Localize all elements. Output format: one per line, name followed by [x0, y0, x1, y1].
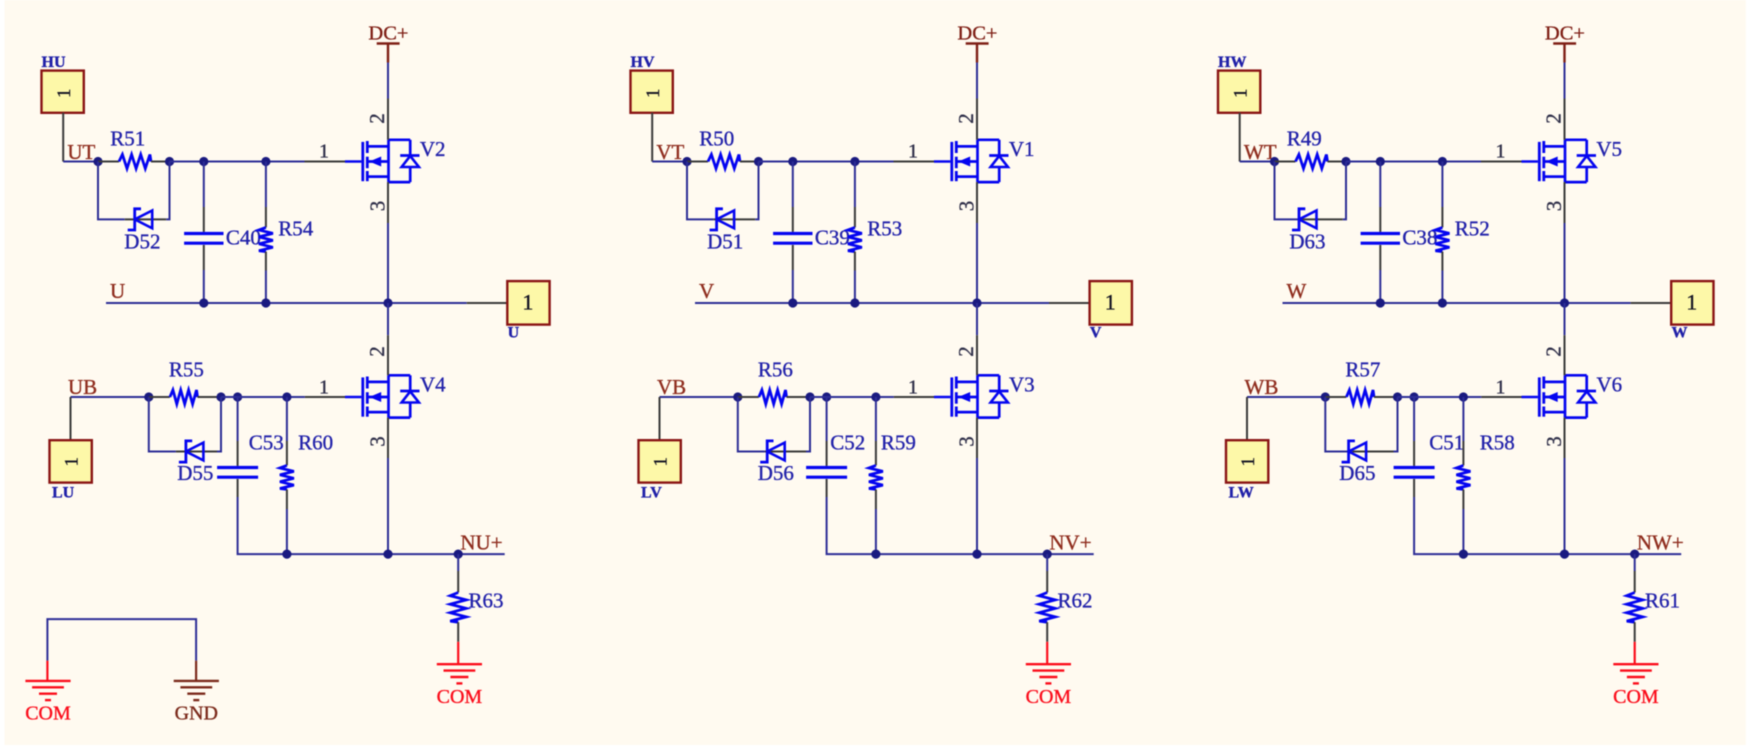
pin wire [875, 441, 877, 465]
wire gate bus [170, 161, 305, 163]
port 1 (U) [507, 281, 549, 341]
wire zener loop [1325, 397, 1352, 452]
resistor R59 [869, 431, 916, 490]
wire zener loop [687, 162, 714, 220]
wire res to net [265, 271, 267, 304]
svg-text:R63: R63 [469, 589, 504, 613]
junction [282, 392, 291, 401]
net NW+ wire [1463, 553, 1681, 555]
svg-text:C51: C51 [1429, 431, 1464, 455]
pin wire [854, 207, 856, 227]
wire cap column [237, 397, 239, 441]
wire source to NV+ [976, 458, 978, 554]
pin wire [687, 161, 708, 163]
pin 3 wire [976, 418, 978, 458]
pin wire [1413, 441, 1415, 466]
svg-text:V4: V4 [420, 373, 446, 397]
wire to DC+ [1564, 63, 1566, 99]
svg-text:3: 3 [954, 201, 978, 212]
resistor R56 [758, 358, 793, 405]
junction [216, 392, 225, 401]
junction [871, 392, 880, 401]
wire zener loop right [1343, 162, 1346, 220]
capacitor C51 [1394, 431, 1465, 478]
wire to DC+ [976, 63, 978, 99]
wire zener loop right [166, 162, 169, 220]
junction [199, 298, 208, 307]
junction [972, 298, 981, 307]
pin wire [203, 245, 205, 270]
capacitor C40 [184, 225, 261, 249]
pin 2 wire [387, 335, 389, 375]
svg-text:V: V [1090, 325, 1102, 342]
port LW [1226, 440, 1268, 501]
wire cap to net [238, 497, 287, 554]
wire res column [854, 162, 856, 208]
wire gate bus [221, 396, 305, 398]
svg-text:COM: COM [1613, 686, 1659, 708]
junction [1410, 392, 1419, 401]
capacitor C53 [217, 431, 284, 478]
svg-text:R60: R60 [298, 431, 333, 455]
pin wire [125, 218, 167, 220]
wire cap to net [203, 270, 205, 303]
pin 2 wire [976, 99, 978, 140]
pin wire [286, 441, 288, 465]
pin 3 wire [1564, 182, 1566, 223]
svg-text:D56: D56 [758, 461, 794, 485]
svg-text:NV+: NV+ [1049, 531, 1091, 555]
svg-text:D63: D63 [1289, 230, 1325, 254]
port 1 (W) [1671, 281, 1713, 341]
wire zener loop right [1394, 397, 1398, 452]
svg-text:R51: R51 [110, 126, 145, 150]
pin 1 wire [894, 396, 934, 398]
wire gate bus [810, 396, 894, 398]
capacitor C38 [1361, 225, 1438, 249]
wire res column [875, 397, 877, 441]
net U wire [106, 302, 467, 304]
wire VB [660, 396, 738, 398]
pin wire [1379, 245, 1381, 270]
svg-text:V6: V6 [1597, 373, 1623, 397]
wire to sense resistor [1046, 554, 1048, 571]
wire res to net [1462, 509, 1464, 554]
wire source to NW+ [1564, 458, 1566, 554]
junction [199, 157, 208, 166]
wire to node WT [1240, 161, 1275, 163]
svg-text:R54: R54 [278, 216, 314, 240]
svg-text:V: V [699, 279, 714, 303]
pin wire [457, 622, 459, 642]
pin wire [1441, 207, 1443, 227]
pin wire [1462, 489, 1464, 509]
svg-text:LW: LW [1229, 485, 1254, 502]
junction [144, 392, 153, 401]
svg-text:R58: R58 [1480, 431, 1515, 455]
wire to sense resistor [1634, 554, 1636, 571]
mosfet V1 [934, 137, 1035, 182]
wire source to NU+ [387, 458, 389, 554]
pin wire [1275, 161, 1296, 163]
pin wire [286, 489, 288, 509]
wire to sense resistor [457, 554, 459, 571]
zener diode D51 [707, 209, 743, 254]
wire cap column [203, 162, 205, 208]
net NV+ wire [876, 553, 1094, 555]
port stub wire [467, 302, 508, 304]
pin 2 wire [1564, 99, 1566, 140]
wire to node UT [63, 161, 98, 163]
power port DC+ [368, 23, 408, 63]
ground COM [1613, 642, 1659, 708]
wire to node VT [652, 161, 687, 163]
wire port stem [62, 113, 64, 162]
zener diode D65 [1339, 441, 1375, 485]
pin wire [98, 161, 119, 163]
wire zener loop right [755, 162, 758, 220]
pin 2 wire [387, 99, 389, 140]
pin wire [792, 207, 794, 232]
svg-text:3: 3 [1542, 436, 1566, 447]
wire res column [286, 397, 288, 441]
pin wire [738, 396, 759, 398]
resistor R60 [280, 431, 333, 490]
svg-text:2: 2 [365, 113, 389, 124]
svg-text:C39: C39 [815, 225, 850, 249]
wire res column [1462, 397, 1464, 441]
wire gate bus [1346, 161, 1481, 163]
wire res to net [854, 271, 856, 304]
power port DC+ [1545, 23, 1585, 63]
svg-text:1: 1 [1105, 290, 1116, 315]
ground COM [1026, 642, 1072, 708]
svg-text:R52: R52 [1455, 216, 1490, 240]
wire res column [1441, 162, 1443, 208]
svg-text:GND: GND [175, 703, 218, 725]
pin wire [1413, 479, 1415, 497]
svg-text:D65: D65 [1339, 461, 1375, 485]
wire zener loop [149, 397, 176, 452]
junction [850, 157, 859, 166]
junction [1459, 392, 1468, 401]
junction [282, 550, 291, 559]
svg-text:COM: COM [437, 686, 483, 708]
svg-text:DC+: DC+ [957, 23, 997, 45]
pin wire [765, 451, 806, 453]
resistor R61 [1627, 589, 1680, 623]
resistor R50 [699, 126, 740, 168]
svg-text:V3: V3 [1009, 373, 1035, 397]
pin 1 wire [305, 396, 345, 398]
svg-text:C53: C53 [249, 431, 284, 455]
svg-text:R55: R55 [169, 358, 204, 382]
svg-text:COM: COM [1026, 686, 1072, 708]
junction [788, 157, 797, 166]
junction [1341, 157, 1350, 166]
pin wire [875, 489, 877, 509]
resistor R51 [110, 126, 151, 168]
wire port stem [651, 113, 653, 162]
pin 2 wire [976, 335, 978, 375]
pin 3 wire [1564, 418, 1566, 458]
junction [165, 157, 174, 166]
wire gate bus [759, 161, 894, 163]
pin wire [457, 571, 459, 593]
ground COM [437, 642, 483, 708]
port LU [50, 440, 92, 501]
zener diode D52 [124, 209, 160, 254]
svg-text:LV: LV [641, 485, 662, 502]
svg-text:2: 2 [365, 346, 389, 357]
port LV [639, 440, 681, 501]
wire cap column [792, 162, 794, 208]
svg-text:C40: C40 [226, 225, 261, 249]
wire source to net U [387, 223, 389, 303]
port HW [1218, 54, 1260, 113]
pin wire [787, 396, 811, 398]
pin wire [1374, 396, 1398, 398]
pin wire [1325, 396, 1346, 398]
wire port stem [1239, 113, 1241, 162]
svg-text:R50: R50 [699, 126, 734, 150]
svg-text:R56: R56 [758, 358, 793, 382]
port 1 (V) [1090, 281, 1132, 341]
svg-text:R61: R61 [1645, 589, 1680, 613]
pin wire [237, 441, 239, 466]
svg-text:C52: C52 [830, 431, 865, 455]
net NU+ wire [287, 553, 505, 555]
junction [1321, 392, 1330, 401]
svg-text:R62: R62 [1058, 589, 1093, 613]
resistor R63 [450, 589, 503, 623]
svg-text:NU+: NU+ [460, 531, 502, 555]
svg-text:2: 2 [954, 346, 978, 357]
node VT junction [682, 157, 691, 166]
port HU [42, 54, 84, 113]
svg-text:D51: D51 [707, 230, 743, 254]
wire res column [265, 162, 267, 208]
wire COM-GND bridge [47, 619, 196, 661]
svg-text:COM: COM [25, 703, 71, 725]
wire zener loop [1275, 162, 1302, 220]
svg-text:V5: V5 [1596, 137, 1622, 161]
wire port stem [70, 397, 72, 440]
svg-text:3: 3 [954, 436, 978, 447]
svg-text:1: 1 [1238, 457, 1259, 467]
pin wire [1046, 571, 1048, 593]
port HV [631, 54, 673, 113]
svg-text:UT: UT [67, 140, 95, 164]
mosfet V3 [934, 373, 1035, 418]
resistor R62 [1039, 589, 1092, 623]
pin wire [176, 451, 217, 453]
junction [261, 157, 270, 166]
svg-text:1: 1 [319, 377, 329, 399]
resistor R55 [169, 358, 204, 405]
junction [733, 392, 742, 401]
mosfet V2 [345, 137, 446, 182]
svg-text:U: U [508, 325, 520, 342]
wire source to net V [976, 223, 978, 303]
pin wire [1328, 161, 1347, 163]
power port DC+ [957, 23, 997, 63]
wire net to lower fet [387, 303, 389, 335]
pin 3 wire [976, 182, 978, 223]
svg-text:LU: LU [52, 485, 75, 502]
svg-text:DC+: DC+ [368, 23, 408, 45]
wire cap to net [792, 270, 794, 303]
svg-text:DC+: DC+ [1545, 23, 1585, 45]
svg-text:2: 2 [1542, 113, 1566, 124]
resistor R58 [1456, 431, 1514, 490]
svg-text:R59: R59 [881, 431, 916, 455]
pin 2 wire [1564, 335, 1566, 375]
mosfet V5 [1522, 137, 1623, 182]
svg-text:V2: V2 [420, 137, 446, 161]
svg-text:2: 2 [1542, 346, 1566, 357]
ground COM (bottom left) [25, 661, 71, 725]
svg-text:VT: VT [656, 140, 684, 164]
junction [1043, 550, 1052, 559]
svg-text:1: 1 [54, 88, 75, 98]
ground GND (bottom left) [174, 661, 219, 725]
pin wire [265, 252, 267, 271]
wire zener loop [738, 397, 765, 452]
svg-text:D52: D52 [124, 230, 160, 254]
junction [871, 550, 880, 559]
junction [788, 298, 797, 307]
pin 3 wire [387, 418, 389, 458]
svg-text:1: 1 [522, 290, 533, 315]
pin wire [198, 396, 222, 398]
svg-text:VB: VB [657, 375, 686, 399]
pin 1 wire [1481, 396, 1521, 398]
junction [1376, 157, 1385, 166]
svg-text:1: 1 [1496, 377, 1506, 399]
svg-text:R49: R49 [1287, 126, 1322, 150]
junction [1393, 392, 1402, 401]
pin wire [1634, 622, 1636, 642]
wire UB [71, 396, 149, 398]
wire res to net [1441, 271, 1443, 304]
port stub wire [1049, 302, 1090, 304]
capacitor C39 [773, 225, 850, 249]
svg-text:W: W [1287, 279, 1307, 303]
svg-text:R53: R53 [867, 216, 902, 240]
junction [822, 392, 831, 401]
wire zener loop [98, 162, 125, 220]
svg-text:D55: D55 [177, 461, 213, 485]
svg-text:1: 1 [908, 377, 918, 399]
wire zener loop right [217, 397, 221, 452]
pin wire [826, 479, 828, 497]
junction [1438, 157, 1447, 166]
wire net to lower fet [976, 303, 978, 335]
svg-text:R57: R57 [1345, 358, 1380, 382]
svg-text:1: 1 [1231, 88, 1252, 98]
pin 3 wire [387, 182, 389, 223]
svg-text:WB: WB [1245, 375, 1279, 399]
wire source to net W [1564, 223, 1566, 303]
junction [454, 550, 463, 559]
junction [233, 392, 242, 401]
wire cap column [1379, 162, 1381, 208]
junction [261, 298, 270, 307]
wire cap to net [1379, 270, 1381, 303]
pin wire [714, 218, 756, 220]
wire port stem [659, 397, 661, 440]
junction [1560, 298, 1569, 307]
pin 1 wire [305, 161, 346, 163]
pin 1 wire [1481, 161, 1522, 163]
svg-text:2: 2 [954, 113, 978, 124]
junction [972, 550, 981, 559]
pin wire [1301, 218, 1343, 220]
pin wire [265, 207, 267, 227]
wire cap column [826, 397, 828, 441]
zener diode D56 [758, 441, 794, 485]
resistor R49 [1287, 126, 1328, 168]
svg-text:U: U [110, 279, 125, 303]
pin wire [151, 161, 170, 163]
pin wire [1462, 441, 1464, 465]
junction [383, 298, 392, 307]
pin wire [826, 441, 828, 466]
svg-text:1: 1 [643, 88, 664, 98]
node WT junction [1270, 157, 1279, 166]
wire net to lower fet [1564, 303, 1566, 335]
pin wire [1441, 252, 1443, 271]
pin wire [237, 479, 239, 497]
wire to DC+ [387, 63, 389, 99]
junction [1459, 550, 1468, 559]
wire cap column [1413, 397, 1415, 441]
pin wire [1379, 207, 1381, 232]
pin wire [854, 252, 856, 271]
wire port stem [1246, 397, 1248, 440]
junction [1560, 550, 1569, 559]
port stub wire [1631, 302, 1672, 304]
wire gate bus [1398, 396, 1482, 398]
zener diode D63 [1289, 209, 1325, 254]
node UT junction [93, 157, 102, 166]
wire res to net [875, 509, 877, 554]
junction [754, 157, 763, 166]
wire cap to net [1414, 497, 1463, 554]
junction [383, 550, 392, 559]
junction [850, 298, 859, 307]
svg-text:HV: HV [631, 54, 655, 71]
pin wire [1046, 622, 1048, 642]
svg-text:HW: HW [1218, 54, 1246, 71]
svg-text:UB: UB [68, 375, 97, 399]
svg-text:1: 1 [319, 141, 329, 163]
resistor R54 [259, 216, 314, 251]
resistor R53 [848, 216, 902, 251]
pin 1 wire [894, 161, 935, 163]
wire cap to net [827, 497, 876, 554]
zener diode D55 [177, 441, 213, 485]
junction [1630, 550, 1639, 559]
wire res to net [286, 509, 288, 554]
net V wire [695, 302, 1049, 304]
svg-text:W: W [1672, 325, 1688, 342]
resistor R57 [1345, 358, 1380, 405]
svg-text:3: 3 [365, 201, 389, 212]
pin wire [792, 245, 794, 270]
junction [1376, 298, 1385, 307]
